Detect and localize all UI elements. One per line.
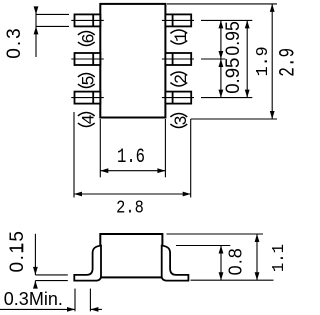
svg-text:1.6: 1.6 <box>117 146 145 168</box>
dimension 2.8 (overall lead span) <box>74 112 191 198</box>
svg-text:0.3Min.: 0.3Min. <box>4 289 63 309</box>
pin3 extension line <box>201 97 252 99</box>
svg-text:2.8: 2.8 <box>116 198 144 219</box>
pin 4 label <box>78 113 100 127</box>
pin 2 label <box>170 72 192 86</box>
svg-text:1: 1 <box>172 32 193 42</box>
dimension 0.15 (lead thickness) <box>35 234 67 286</box>
svg-text:4: 4 <box>79 114 100 124</box>
pin2 extension line <box>201 58 225 60</box>
pin 1 label <box>170 30 192 44</box>
svg-text:0.95: 0.95 <box>222 58 243 94</box>
svg-text:2.9: 2.9 <box>275 48 300 77</box>
pin 5 lead (mid-left) <box>71 53 104 65</box>
svg-text:0.15: 0.15 <box>7 230 28 273</box>
dimension 2.9 (body length) <box>167 4 277 119</box>
side view right gull-wing lead <box>162 246 189 281</box>
svg-text:0.8: 0.8 <box>225 247 245 275</box>
svg-text:0.3: 0.3 <box>4 26 25 58</box>
dimension 1.6 (body width) <box>100 119 165 177</box>
svg-text:6: 6 <box>79 33 100 43</box>
pin 5 label <box>78 74 100 88</box>
svg-text:0.95: 0.95 <box>221 21 243 55</box>
dimension 1.9 (outer lead pitch) <box>246 20 248 97</box>
svg-text:2: 2 <box>172 74 193 84</box>
svg-text:5: 5 <box>79 75 100 85</box>
side view: package body <box>100 234 162 277</box>
side view left gull-wing lead <box>74 246 101 281</box>
svg-text:1.9: 1.9 <box>254 46 273 76</box>
dimension 0.8 (body standoff height) <box>176 246 230 281</box>
pin 1 lead (top-right) <box>162 14 194 26</box>
pin1 extension line <box>201 19 252 21</box>
dimension 1.1 (overall height) <box>167 234 264 280</box>
pin 4 lead (bottom-left) <box>71 92 104 104</box>
pin 3 label <box>170 114 192 128</box>
pin 6 label <box>78 32 100 46</box>
svg-text:1.1: 1.1 <box>269 244 289 272</box>
dimension 0.3 (lead width, top-left) <box>36 7 69 57</box>
pin 2 lead (mid-right) <box>162 53 194 65</box>
dimension 0.95 0.95 (lead pitch) <box>220 20 222 97</box>
pin 6 lead (top-left) <box>71 14 104 26</box>
top view: package body outline <box>100 4 165 118</box>
seating plane extension line <box>191 279 274 281</box>
svg-text:3: 3 <box>172 115 193 125</box>
pin 3 lead (bottom-right) <box>162 92 194 104</box>
dimension 0.3 Min (foot length) <box>0 289 102 312</box>
